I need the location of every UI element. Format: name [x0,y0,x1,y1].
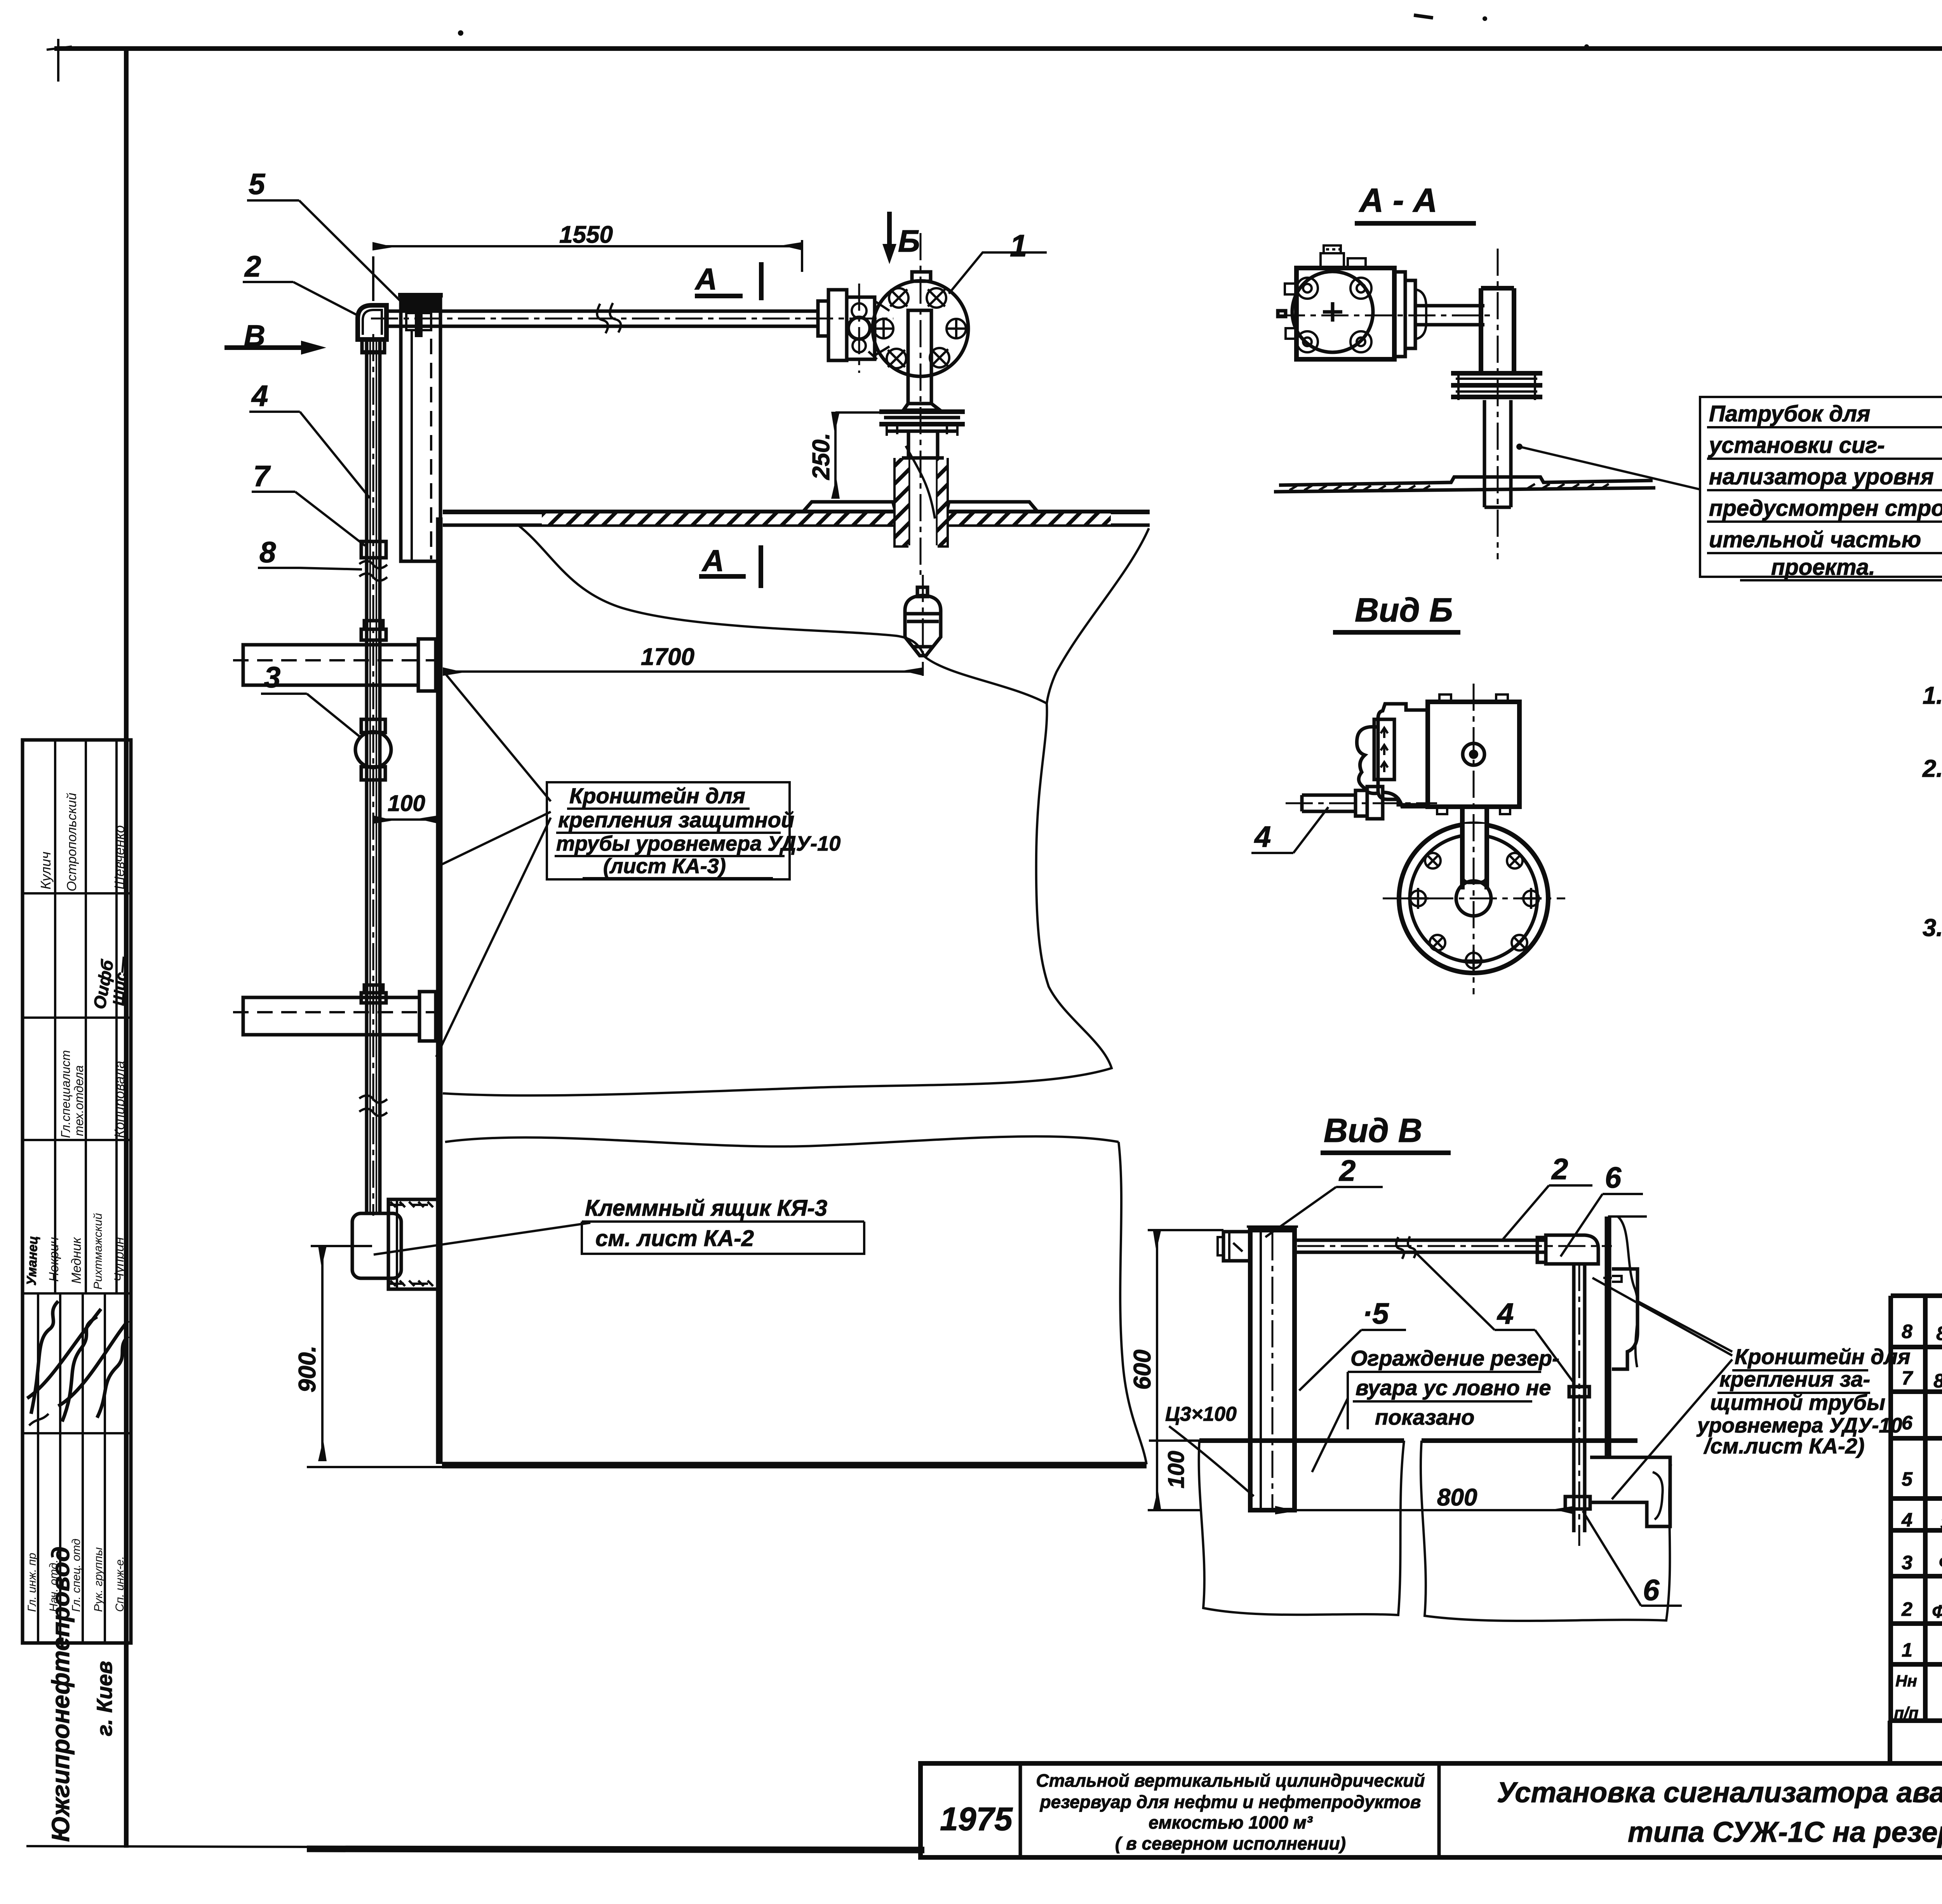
roof line [1279,477,1653,485]
collar at beam2 level [364,985,383,993]
svg-text:4: 4 [1497,1297,1514,1330]
leader 3 [307,694,360,737]
svg-text:Вид Б: Вид Б [1355,592,1453,629]
instrument column on flange [908,310,931,404]
row 1 сигнализатор [1902,1632,1942,1666]
dim 1550 [373,245,802,247]
svg-text:2: 2 [244,250,261,283]
connector block between pipe and instrument [818,301,828,336]
svg-text:Шевченко: Шевченко [111,825,127,889]
flange stack [879,412,965,424]
header row [1894,1669,1942,1723]
leader 8 [300,568,362,569]
ground wavy blobs [1199,1441,1404,1615]
svg-text:Патрубок для: Патрубок для [1709,401,1870,426]
svg-text:3. Позиция прибора принята: 3. Позиция прибора принята в соответстви… [1923,914,1942,942]
row 5 кронштейн [1902,1445,1942,1495]
bottom border thick [307,1849,924,1850]
Б arrow [887,212,892,244]
ball valve поз.3 [361,719,385,733]
neck between flange and nozzle [907,431,910,458]
svg-text:Чуприн: Чуприн [112,1237,127,1282]
row 6 хомут [1902,1403,1942,1440]
svg-text:вуара ус ловно не: вуара ус ловно не [1356,1375,1551,1400]
horizontal pipe to riser [1415,304,1484,308]
svg-text:крепления защитной: крепления защитной [558,808,794,832]
scanner artifacts right edge [458,14,1942,1125]
centerlines instrument [920,233,922,575]
row 8 контргайка [1902,1302,1942,1345]
svg-text:3: 3 [264,661,280,694]
vertical riser pipe [1479,288,1483,372]
svg-text:3262-75: 3262-75 [1940,1514,1942,1533]
svg-text:Рихтмажский: Рихтмажский [92,1213,104,1290]
svg-text:2: 2 [1551,1153,1568,1186]
svg-text:6: 6 [1643,1574,1660,1607]
svg-text:3: 3 [1902,1552,1912,1573]
svg-text:п/п: п/п [1894,1704,1919,1722]
svg-text:см. лист КА-2: см. лист КА-2 [595,1226,754,1251]
leader 5 [299,200,403,304]
svg-text:Гл.специалист: Гл.специалист [59,1050,73,1138]
nozzle through roof (патрубок) [896,458,947,545]
tank wall [436,517,443,1464]
row 4 труба [1901,1498,1942,1537]
collar above beam 1 [364,621,383,629]
callout Клеммный ящик [374,1223,590,1255]
svg-text:резервуар для нефти и нефтепр: резервуар для нефти и нефтепродуктов [1039,1792,1421,1812]
dim 100 [373,818,438,821]
svg-text:Сп. инж-е.: Сп. инж-е. [113,1556,126,1612]
svg-text:8: 8 [259,536,276,569]
leader 4 [300,412,370,498]
svg-text:емкостью 1000 м³: емкостью 1000 м³ [1148,1812,1313,1833]
instrument поз.1: flange circle [873,281,968,376]
upper bracket on wall [1612,1269,1637,1369]
svg-text:800: 800 [1437,1484,1477,1511]
муфта поз.7 on pipe [361,541,386,558]
bottom border left thin [26,1846,307,1847]
klem box КЯ-3 [352,1213,401,1278]
right pipe down [1572,1264,1576,1532]
top pipe поз.4 horizontal [1295,1239,1546,1242]
dim 900 [321,1247,324,1460]
svg-text:/см.лист КА-2): /см.лист КА-2) [1703,1434,1865,1458]
tank bottom [442,1462,1147,1469]
left trim tick top-left [47,39,72,82]
svg-text:Установка сигнализатора авар: Установка сигнализатора аварийного уровн… [1497,1776,1942,1808]
svg-text:1: 1 [1902,1639,1912,1661]
svg-text:Кулич: Кулич [38,852,54,889]
protective pipe vertical поз.4 [365,339,369,1213]
float [917,587,927,597]
left stubs [1285,284,1296,339]
svg-text:Ц3×100: Ц3×100 [1165,1403,1237,1425]
right plates [1394,272,1405,357]
lower tank right side [1119,1142,1147,1464]
svg-text:( в северном исполнении): ( в северном исполнении) [1115,1833,1346,1854]
svg-text:·5: ·5 [1363,1297,1389,1330]
top bolts [1439,694,1508,702]
dim 1700 [444,670,923,673]
svg-text:показано: показано [1375,1405,1474,1429]
device body [1296,268,1394,359]
svg-text:Гл. инж. пр: Гл. инж. пр [26,1553,38,1612]
svg-text:1700: 1700 [641,644,694,670]
svg-text:Стальной вертикальный цилиндри: Стальной вертикальный цилиндрический [1036,1770,1425,1791]
svg-text:4: 4 [1254,820,1271,853]
flange stack [1451,373,1542,397]
svg-text:предусмотрен стро-: предусмотрен стро- [1709,496,1942,521]
row 7 муфта [1902,1352,1942,1392]
svg-text:Кронштейн для: Кронштейн для [569,783,745,808]
roof right-end break curve [1047,528,1149,703]
svg-text:ФП-3/4": ФП-3/4" [1939,1552,1942,1572]
svg-text:8968-74: 8968-74 [1936,1323,1942,1344]
callout box Патрубок [1519,447,1700,489]
svg-text:щитной трубы: щитной трубы [1710,1390,1885,1415]
left inner border [124,49,129,1848]
svg-text:6: 6 [1902,1412,1913,1434]
slot bolt through channel [406,313,431,330]
svg-text:(лист КА-3): (лист КА-3) [603,855,726,878]
specification band [1888,1721,1892,1763]
tank wall right [1605,1217,1611,1457]
svg-text:8: 8 [1902,1321,1912,1342]
svg-text:5: 5 [1902,1468,1913,1490]
svg-text:А: А [701,543,724,578]
horizontal band lines [23,892,131,895]
row 3 фитинг [1902,1548,1942,1579]
nut collar below elbow (overlay) [362,339,385,353]
svg-text:100: 100 [1164,1451,1189,1488]
svg-text:5: 5 [249,168,266,201]
left bolt [1223,1232,1251,1261]
break symbol поз.8 area [359,561,387,581]
sheet top border [54,46,1942,51]
lower bracket assembly [1590,1457,1670,1526]
dim 600 [1156,1230,1158,1510]
svg-text:1: 1 [1010,228,1027,263]
svg-text:4: 4 [251,379,268,412]
svg-text:6: 6 [1605,1161,1622,1194]
cut curve inside pipe [906,446,935,519]
svg-text:тех.отдела: тех.отдела [72,1065,86,1136]
svg-text:нализатора уровня: нализатора уровня [1709,464,1934,489]
svg-text:Остропольский: Остропольский [64,793,79,891]
corner elbow поз.2 [358,305,386,339]
svg-text:типа СУЖ-1С на резервуаре: типа СУЖ-1С на резервуаре. [1628,1816,1942,1848]
signature squiggles band 3330-3690 [27,1301,101,1414]
svg-text:600: 600 [1129,1350,1156,1390]
leader 7 [295,492,365,546]
top cap [912,272,931,281]
svg-text:100: 100 [388,791,425,816]
pipe break marks [597,303,621,333]
horizontal pipe поз.4 to instrument [386,310,816,313]
svg-text:Южгипронефтепровод: Южгипронефтепровод [47,1546,75,1842]
row 2 фитинг через дно [1901,1594,1942,1623]
union on right pipe [1569,1387,1589,1397]
svg-text:Вид В: Вид В [1324,1112,1422,1149]
lower tank section top wavy [445,1136,1119,1147]
ground lines [1199,1438,1404,1443]
svg-text:2: 2 [1338,1154,1356,1187]
leader to Кронштейн text right [1592,1278,1732,1499]
svg-text:Медник: Медник [69,1237,84,1284]
svg-text:проекта.: проекта. [1771,555,1875,580]
pipe below flange to roof [1483,400,1486,507]
column overlaps circle [1464,824,1485,874]
nut collar below elbow [362,339,385,352]
roof reinforcing pad [803,502,896,512]
bolt holes [1410,853,1539,968]
left mechanism [1378,704,1428,805]
leader 2 [293,282,358,315]
svg-text:900.: 900. [294,1345,321,1392]
svg-text:Некрич: Некрич [47,1237,61,1282]
svg-text:7: 7 [253,460,271,493]
main box [1428,702,1519,807]
svg-text:установки сиг-: установки сиг- [1708,433,1885,458]
svg-text:8966- 75: 8966- 75 [1933,1370,1942,1392]
vertical strip lines upper part [54,740,56,1293]
right corner fitting [1546,1235,1598,1264]
svg-text:А - А: А - А [1359,182,1437,219]
bracket channel поз.5 (vertical) [401,299,440,561]
S-curve break upper tank [443,525,1112,1095]
channel поз.5 [1250,1230,1295,1510]
support beam 1 [243,645,418,685]
svg-text:крепления за-: крепления за- [1719,1367,1870,1391]
svg-text:1550: 1550 [559,221,613,248]
top fittings [1321,253,1344,268]
svg-text:трубы уровнемера УДУ-10: трубы уровнемера УДУ-10 [556,832,840,855]
svg-text:ительной частью: ительной частью [1709,527,1921,552]
dim 250 [834,412,837,498]
svg-text:Клеммный ящик КЯ-3: Клеммный ящик КЯ-3 [585,1196,827,1221]
clamp поз.6 bottom [1565,1497,1590,1509]
svg-text:1. Размещение сигнализатора: 1. Размещение сигнализатора уровня на ре… [1923,682,1942,709]
svg-text:7: 7 [1902,1367,1913,1389]
dim 100 [1156,1441,1158,1510]
centerlines [1473,684,1475,994]
svg-text:Копировала: Копировала [111,1061,127,1138]
svg-text:2. Прокладка защитной труб: 2. Прокладка защитной трубы по Вертикаль… [1922,755,1942,782]
svg-text:Ограждение резер-: Ограждение резер- [1350,1346,1559,1370]
svg-text:2: 2 [1901,1598,1912,1620]
svg-text:г. Киев: г. Киев [92,1661,117,1736]
svg-text:А: А [694,262,717,296]
svg-text:250.: 250. [808,433,835,480]
dim 800 [1276,1509,1574,1511]
callout Кронштейн для крепления [436,672,551,1057]
flange circle [1399,824,1548,973]
left stub pipe поз.4 [1302,794,1356,797]
bolt holes [874,288,966,368]
break symbol lower [359,1095,387,1116]
bottom bolts [1437,807,1510,814]
svg-text:Нн: Нн [1895,1672,1917,1690]
svg-text:Б: Б [898,224,920,258]
svg-text:4: 4 [1901,1509,1912,1531]
svg-text:ФОД-3/4": ФОД-3/4" [1932,1601,1942,1622]
vertical strips middle (signatures + names + titles) [37,1293,39,1643]
support beam 2 [243,997,419,1035]
table grid [1890,1296,1942,1763]
svg-text:Кронштейн для: Кронштейн для [1735,1344,1911,1369]
bottom column to flange [1460,807,1465,889]
svg-text:Рук. группы: Рук. группы [92,1547,105,1612]
svg-text:Уманец: Уманец [24,1236,40,1286]
roof hatched band [443,510,896,514]
svg-text:1975: 1975 [940,1801,1013,1837]
